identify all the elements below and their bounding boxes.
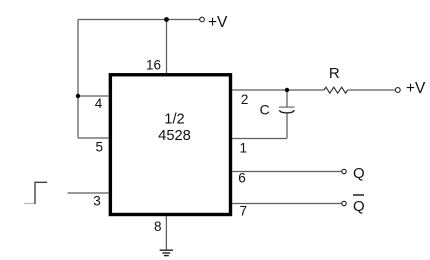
svg-text:1: 1: [240, 141, 248, 156]
svg-text:7: 7: [240, 204, 248, 219]
svg-text:3: 3: [93, 194, 101, 209]
svg-text:1/2: 1/2: [164, 112, 184, 128]
svg-text:6: 6: [238, 171, 246, 186]
svg-text:4: 4: [95, 96, 103, 111]
svg-text:Q: Q: [353, 165, 365, 182]
svg-text:16: 16: [146, 57, 161, 72]
svg-text:8: 8: [154, 219, 162, 234]
svg-text:5: 5: [95, 140, 103, 155]
svg-text:C: C: [260, 102, 270, 118]
svg-text:Q: Q: [353, 198, 365, 215]
svg-text:2: 2: [241, 92, 249, 107]
svg-text:+V: +V: [406, 80, 426, 97]
svg-text:4528: 4528: [158, 128, 191, 144]
svg-text:+V: +V: [208, 14, 228, 31]
svg-text:R: R: [329, 65, 340, 82]
